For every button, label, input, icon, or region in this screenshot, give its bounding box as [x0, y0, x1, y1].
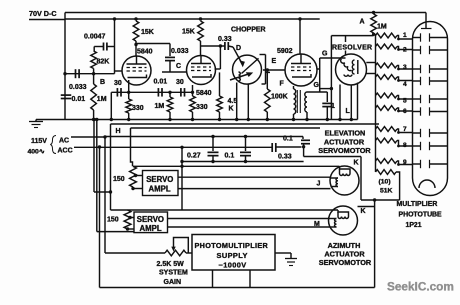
wire plate1 to tube top [135, 45, 137, 57]
wire AC rail [104, 137, 106, 253]
wire capA to capB [276, 146, 302, 148]
svg-text:9: 9 [403, 159, 407, 166]
svg-text:AMPL: AMPL [149, 185, 171, 194]
resistor dynode R8 [376, 138, 398, 143]
resolver winding bottom [344, 75, 352, 77]
wire chopper output stub [266, 71, 271, 73]
chopper arrow 2 [230, 74, 250, 81]
wire plate1 coupling [136, 43, 170, 45]
svg-text:5902: 5902 [277, 48, 293, 55]
capacitor 0.1 mid [240, 151, 251, 153]
wire left rail x65 [64, 13, 66, 120]
motor J elevation circle [330, 166, 359, 195]
wire H rail [110, 124, 112, 210]
resistor dynode R5 [376, 93, 398, 98]
node 82K 1M junction [92, 72, 95, 75]
wire azimuth right stub [358, 206, 375, 208]
dynode element 6 [413, 111, 421, 113]
wire secondary top [307, 91, 327, 93]
resolver rotor winding vertical [352, 60, 354, 74]
wire plate2 node [201, 45, 226, 47]
wire chopper to 5902 [263, 69, 285, 71]
phototube cathode arc [419, 180, 435, 188]
wire ACC rail [99, 147, 101, 288]
resistor 15K no.2 [198, 21, 204, 41]
node G2 junction [330, 87, 333, 90]
wire supply bottom leads [212, 270, 214, 288]
wire resolver right stub top [366, 62, 375, 64]
box photomultiplier supply [192, 235, 275, 271]
wire rail94 drop [93, 120, 95, 193]
svg-text:0.1: 0.1 [225, 153, 235, 160]
ground symbol supply [290, 253, 292, 259]
wire L4 drop to capB [302, 137, 304, 140]
capacitor 0.033 interstage [169, 44, 171, 57]
wire gain line [105, 252, 165, 254]
box servo ampl 2 [134, 212, 168, 233]
svg-text:−1000V: −1000V [219, 261, 247, 270]
potentiometer wiper arrow [173, 244, 175, 249]
svg-text:G: G [322, 51, 328, 58]
node ladder top [372, 33, 375, 36]
wire servo1 output a [178, 176, 331, 178]
svg-text:30: 30 [114, 80, 122, 87]
svg-text:5840: 5840 [137, 49, 153, 56]
svg-text:L: L [346, 108, 351, 115]
capacitor 30 no.1 [116, 88, 118, 97]
resistor dynode R9 [376, 159, 398, 164]
node capB bottom [302, 145, 305, 148]
wire supply ground lead [275, 252, 291, 254]
wire resolver right stub bottom [366, 73, 375, 75]
wire to elevation motor [304, 156, 361, 158]
wire resolver left riser [330, 36, 332, 120]
svg-text:A: A [360, 19, 365, 26]
wire pin 5 lead [397, 96, 413, 100]
svg-text:G: G [314, 82, 320, 89]
wire grid rail [114, 19, 116, 74]
wire plate riser to resolver [319, 58, 321, 93]
motor M azimuth circle [329, 206, 358, 235]
wire 0.0047 right lead [107, 46, 115, 48]
svg-text:0.0047: 0.0047 [84, 34, 106, 41]
wire servo1 top output [133, 165, 340, 167]
resistor dynode R1 [376, 33, 398, 38]
svg-text:ACC: ACC [58, 148, 73, 155]
node bus2 junction 15K R2 [199, 17, 202, 20]
svg-text:1M: 1M [155, 103, 165, 110]
wire servo2 output b [168, 226, 330, 228]
svg-text:1P21: 1P21 [406, 222, 422, 229]
wire 5902 top lead [299, 19, 301, 54]
wire resolver bottom lead 2 [350, 85, 352, 120]
svg-text:330: 330 [196, 104, 208, 111]
wire AC line [71, 136, 105, 138]
svg-text:2.5K 5W: 2.5K 5W [157, 261, 185, 268]
svg-text:1M: 1M [97, 96, 107, 103]
svg-text:1: 1 [403, 32, 407, 39]
svg-text:PHOTOMULTIPLIER: PHOTOMULTIPLIER [195, 241, 269, 250]
svg-text:(10): (10) [379, 179, 391, 186]
resistor 150 no.1 [130, 166, 137, 187]
svg-text:8: 8 [403, 142, 407, 149]
capacitor 0.01 coupling [157, 88, 159, 97]
node cathode1 [127, 91, 130, 94]
svg-text:RESOLVER: RESOLVER [332, 45, 372, 52]
svg-text:SUPPLY: SUPPLY [217, 251, 248, 260]
node 1M grid2 bottom [168, 118, 171, 121]
resistor 1M dynode [371, 14, 377, 33]
wire grid2 line [162, 71, 187, 73]
svg-text:E: E [272, 58, 277, 65]
svg-text:100K: 100K [271, 94, 288, 101]
node 330 no.2 bottom [191, 118, 194, 121]
svg-text:SeekIC.com: SeekIC.com [387, 280, 454, 294]
svg-text:SERVOMOTOR: SERVOMOTOR [319, 258, 372, 267]
svg-text:J: J [317, 181, 321, 188]
resistor 1M grid1 [91, 84, 97, 110]
wire grid1 stub [115, 70, 123, 72]
svg-text:F: F [280, 81, 285, 88]
wire bottom bus [100, 287, 375, 289]
svg-text:0.033: 0.033 [69, 84, 87, 91]
resistor dynode R4 [376, 75, 398, 80]
wire pin 8 lead [397, 141, 413, 147]
resistor 330 no.2 [190, 96, 196, 112]
node azimuth rail junction [373, 198, 376, 201]
svg-text:30: 30 [176, 79, 184, 86]
capacitor 0.27 [208, 151, 219, 153]
wire L5 rail [181, 147, 183, 210]
motor M left winding [329, 218, 337, 220]
svg-text:K: K [361, 208, 366, 215]
svg-text:0.33: 0.33 [278, 154, 292, 161]
capacitor 0.033 input [75, 69, 77, 78]
svg-text:115V: 115V [31, 138, 47, 145]
svg-text:0.1: 0.1 [283, 136, 293, 143]
resistor 4.5K [219, 72, 221, 96]
wire cathode bus row [111, 91, 192, 93]
svg-text:SERVOMOTOR: SERVOMOTOR [318, 146, 371, 155]
wire elevation K riser [360, 157, 362, 201]
wire 150 no.2 stubs [130, 217, 135, 219]
capacitor 0.1 series capB [301, 139, 310, 141]
transformer core [296, 90, 298, 113]
resolver stator winding diagonal [340, 59, 352, 72]
tube V1 5840 [122, 56, 151, 85]
svg-text:70V D-C: 70V D-C [29, 9, 57, 18]
wire H bus L2 [111, 123, 380, 125]
svg-text:AC: AC [59, 138, 69, 145]
capacitor 0.01 rail [61, 94, 72, 96]
dynode element 1 [413, 37, 421, 39]
svg-text:400∿: 400∿ [28, 149, 45, 156]
svg-text:5: 5 [403, 98, 407, 105]
wire 2.5K to box [186, 252, 192, 254]
svg-text:M: M [314, 221, 320, 228]
wire pin 6 lead [397, 108, 413, 111]
svg-text:H: H [116, 128, 121, 135]
box servo ampl 1 [143, 171, 179, 196]
wire servo2 output a [168, 218, 330, 220]
resistor 100K [266, 70, 268, 89]
capacitor 0.33 series [271, 143, 273, 152]
svg-text:K: K [354, 160, 359, 167]
wire azimuth rail [374, 200, 376, 288]
capacitor 30 no.2 [180, 88, 182, 97]
node L5 rail junction [180, 146, 183, 149]
resolver circle [336, 54, 367, 85]
node bus2 junction 15K R1 [134, 17, 137, 20]
svg-text:SYSTEM: SYSTEM [159, 270, 188, 277]
svg-text:0.33: 0.33 [218, 36, 232, 43]
dynode element 2 [413, 49, 421, 51]
resistor dynode R2 [376, 44, 398, 49]
wire top bus B+ [65, 12, 426, 14]
node AC rail junction [103, 135, 106, 138]
resistor 15K no.1 [133, 21, 139, 41]
svg-text:1M: 1M [377, 24, 387, 31]
svg-text:SERVO: SERVO [137, 215, 164, 224]
svg-text:0.01: 0.01 [154, 79, 168, 86]
wire pin 7 lead [397, 129, 413, 133]
chopper right bar [260, 54, 266, 56]
capacitor 1 tuning [326, 92, 328, 102]
wire node B horizontal [65, 73, 115, 75]
svg-text:15K: 15K [182, 29, 195, 36]
node bus2 junction 5902 plate [298, 17, 301, 20]
wire 5902 plate right exit [317, 68, 320, 70]
node 150 no.2 bottom [126, 227, 129, 230]
dynode element 4 [413, 80, 421, 82]
transformer primary winding [293, 86, 295, 89]
node plate2 chopper tap [219, 44, 222, 47]
node bus2 junction grid rail [113, 17, 116, 20]
resistor dynode R3 [376, 63, 398, 68]
resistor dynode R10 51K [376, 170, 397, 175]
dynode element 3 [413, 68, 421, 70]
svg-text:CHOPPER: CHOPPER [231, 27, 266, 34]
resistor 2.5K 5W [165, 250, 186, 256]
svg-text:2: 2 [403, 47, 407, 54]
motor M top winding [338, 210, 349, 217]
chopper diagonal contact [242, 58, 259, 73]
dynode element 9 [413, 163, 421, 165]
dynode element 7 [413, 132, 421, 134]
svg-text:51K: 51K [380, 188, 393, 195]
chopper coil reed [239, 72, 241, 81]
svg-text:3: 3 [403, 64, 407, 71]
node rail-B junction [63, 72, 66, 75]
wire rail96 drop [96, 120, 98, 232]
wire anode lead [425, 13, 427, 29]
svg-text:5840: 5840 [196, 90, 212, 97]
wire ladder left rail [375, 34, 377, 172]
wire pin 4 lead [397, 77, 413, 81]
node 330 no.1 bottom [127, 118, 130, 121]
wire ACC reference line [74, 146, 272, 148]
capacitor 0.33 chopper [224, 42, 226, 50]
svg-text:SERVO: SERVO [146, 175, 173, 184]
node plate1 [134, 43, 137, 46]
wire pin 9 lead [397, 161, 413, 165]
svg-text:82K: 82K [97, 59, 110, 66]
svg-text:0.27: 0.27 [187, 153, 201, 160]
dynode element 5 [413, 98, 421, 100]
svg-text:330: 330 [132, 105, 144, 112]
wire caps riser 0.1 [245, 137, 247, 152]
capacitor 0.0047 [103, 43, 105, 51]
tube V3 5902 [285, 54, 317, 86]
resistor 1M grid2 [169, 92, 171, 97]
svg-text:ACTUATOR: ACTUATOR [324, 137, 365, 146]
resistor 82K [91, 51, 97, 69]
wire rail96 to servo2 [97, 231, 134, 233]
svg-text:PHOTOTUBE: PHOTOTUBE [399, 212, 443, 219]
wire second bus [65, 18, 320, 20]
wire caps bottom line [182, 161, 304, 163]
wire ladder bottom line [361, 199, 400, 201]
chopper arrow 1 [233, 47, 242, 64]
wire pin 2 lead [397, 47, 413, 50]
phototube envelope [413, 22, 448, 196]
chopper circle [233, 55, 262, 84]
node 1M bottom [92, 118, 95, 121]
wire caps riser 0.27 [212, 137, 214, 152]
svg-text:AMPL: AMPL [140, 224, 162, 233]
svg-text:150: 150 [107, 217, 119, 224]
wire ground bus [36, 119, 358, 121]
wire 150 stubs to box1 [135, 175, 143, 177]
wire cathode1 lead [128, 80, 130, 99]
wire cathode return dropper [110, 92, 112, 119]
svg-text:4: 4 [403, 81, 407, 88]
wire resolver bottom lead 3 bus end [357, 83, 359, 120]
svg-text:150: 150 [113, 176, 125, 183]
wire ladder top link [331, 35, 373, 37]
tube V2 5840 [187, 56, 216, 85]
wire azimuth top line [111, 209, 339, 211]
svg-text:B: B [100, 79, 105, 86]
dynode element 8 [413, 145, 421, 147]
svg-text:MULTIPLIER: MULTIPLIER [397, 201, 438, 208]
node cathode2 [191, 91, 194, 94]
resistor dynode R6 [376, 106, 398, 111]
svg-text:K: K [229, 106, 234, 113]
wire bus L3 [131, 127, 321, 129]
wire plate2 right exit [219, 46, 221, 69]
wire resolver bottom lead 1 [339, 85, 341, 120]
svg-text:GAIN: GAIN [164, 279, 182, 286]
wire cathode2 lead [192, 85, 194, 96]
svg-text:6: 6 [403, 108, 407, 115]
wire rail94 to H rail [94, 191, 111, 193]
node ACC rail junction [98, 145, 101, 148]
wire AC bus L4 [105, 136, 303, 138]
wire 0.0047 left lead [94, 46, 103, 48]
wire G1 line [320, 57, 346, 59]
svg-text:7: 7 [403, 126, 407, 133]
ground symbol main [35, 120, 37, 122]
wire pin 3 lead [397, 66, 413, 70]
wire G2 line [320, 88, 332, 90]
wire servo1 output b [178, 188, 331, 190]
wire L3 rail to 150 no.1 [131, 128, 133, 166]
wire 70V lead [29, 19, 65, 21]
svg-text:15K: 15K [141, 29, 154, 36]
wire resolver top lead [345, 36, 347, 42]
svg-text:D: D [236, 45, 241, 52]
resistor 330 no.1 [126, 99, 132, 113]
svg-text:0.01: 0.01 [72, 96, 86, 103]
svg-text:0.033: 0.033 [171, 48, 189, 55]
svg-text:4.5: 4.5 [228, 98, 238, 105]
node 1M grid2 top [168, 91, 171, 94]
node bus1 junction 1M A [372, 11, 375, 14]
node 150 no.1 bottom [131, 187, 134, 190]
resistor 150 no.2 [124, 210, 131, 229]
resistor dynode R7 [376, 127, 398, 132]
wire chopper arrow1 lead [228, 46, 233, 47]
transformer secondary winding [305, 92, 307, 112]
wire plate2 to tube top [200, 41, 202, 55]
wire pin 1 lead [397, 36, 413, 40]
motor J top winding [340, 166, 351, 173]
motor J left winding [331, 177, 339, 179]
svg-text:C: C [176, 63, 181, 70]
wire chopper bottom leads [236, 83, 238, 120]
